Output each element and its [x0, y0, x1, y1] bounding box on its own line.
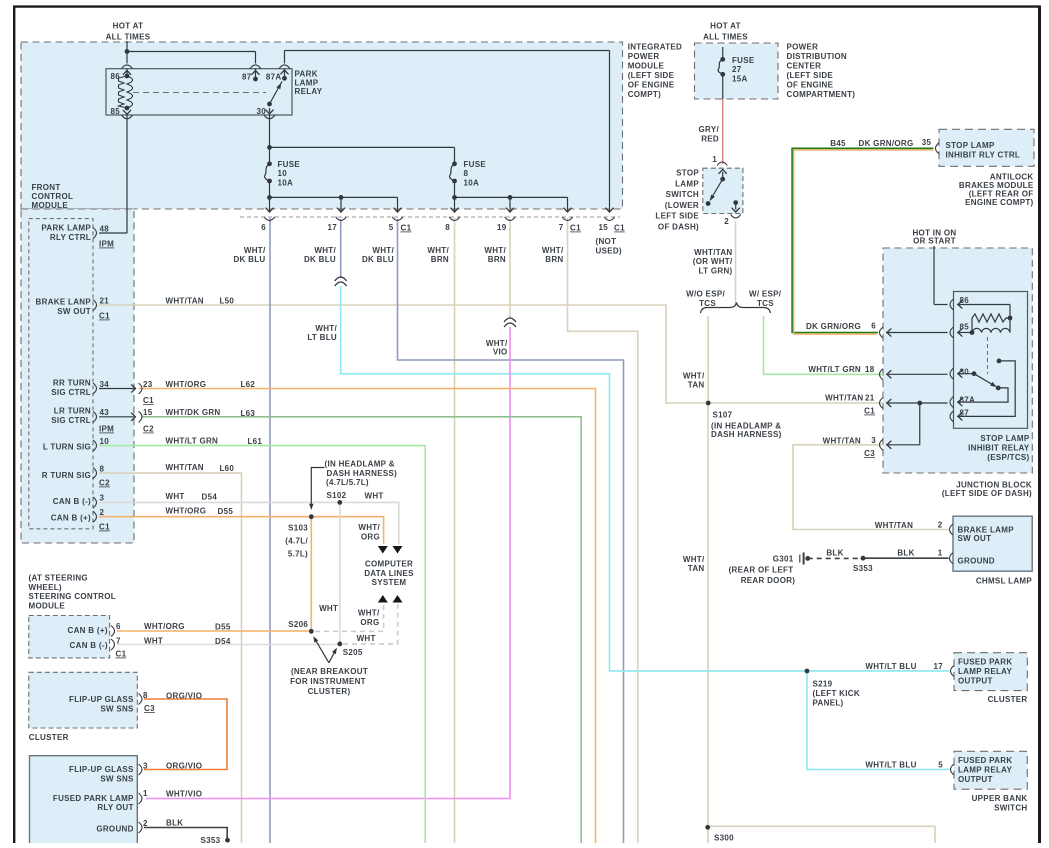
- svg-text:18: 18: [865, 365, 875, 374]
- svg-text:15: 15: [143, 408, 153, 417]
- svg-text:17: 17: [328, 223, 338, 232]
- svg-text:85: 85: [111, 107, 121, 116]
- svg-text:VIO: VIO: [493, 348, 508, 357]
- svg-text:STOP LAMP: STOP LAMP: [946, 141, 995, 150]
- svg-text:STEERING CONTROL: STEERING CONTROL: [29, 592, 116, 601]
- svg-text:WHT/: WHT/: [358, 523, 380, 532]
- svg-text:10A: 10A: [464, 179, 480, 188]
- svg-text:2: 2: [143, 819, 148, 828]
- svg-text:BLK: BLK: [826, 549, 843, 558]
- svg-text:LEFT SIDE: LEFT SIDE: [655, 212, 699, 221]
- svg-text:OUTPUT: OUTPUT: [958, 677, 993, 686]
- svg-text:WHT: WHT: [144, 637, 163, 646]
- svg-text:DASH HARNESS): DASH HARNESS): [327, 469, 398, 478]
- svg-text:S206: S206: [288, 620, 308, 629]
- svg-text:WHT/ORG: WHT/ORG: [166, 380, 207, 389]
- svg-text:C1: C1: [99, 312, 110, 321]
- svg-text:COMPUTER: COMPUTER: [365, 560, 413, 569]
- svg-text:PARK: PARK: [295, 70, 318, 79]
- svg-text:LR TURN: LR TURN: [54, 407, 91, 416]
- svg-text:FRONT: FRONT: [32, 183, 61, 192]
- svg-text:STOP: STOP: [676, 169, 699, 178]
- svg-text:C1: C1: [99, 523, 110, 532]
- svg-text:IPM: IPM: [99, 425, 114, 434]
- svg-text:86: 86: [111, 72, 121, 81]
- svg-text:2: 2: [938, 521, 943, 530]
- svg-text:WHT: WHT: [166, 492, 185, 501]
- svg-text:ENGINE COMPT): ENGINE COMPT): [965, 198, 1033, 207]
- svg-text:C1: C1: [614, 224, 625, 233]
- svg-text:5.7L): 5.7L): [288, 550, 308, 559]
- svg-text:DK BLU: DK BLU: [362, 255, 394, 264]
- svg-text:85: 85: [960, 323, 970, 332]
- svg-text:MODULE: MODULE: [628, 62, 665, 71]
- svg-text:CENTER: CENTER: [787, 62, 822, 71]
- svg-text:MODULE: MODULE: [32, 201, 69, 210]
- svg-text:C1: C1: [864, 407, 875, 416]
- svg-text:PANEL): PANEL): [813, 699, 844, 708]
- svg-text:15A: 15A: [732, 75, 748, 84]
- svg-text:FUSED PARK: FUSED PARK: [958, 756, 1012, 765]
- svg-text:C1: C1: [570, 224, 581, 233]
- svg-text:WHT: WHT: [319, 604, 338, 613]
- svg-text:(NEAR BREAKOUT: (NEAR BREAKOUT: [291, 667, 368, 676]
- svg-text:WHT/: WHT/: [358, 609, 380, 618]
- svg-text:ORG/VIO: ORG/VIO: [166, 692, 202, 701]
- svg-text:DISTRIBUTION: DISTRIBUTION: [787, 52, 848, 61]
- svg-text:BRN: BRN: [431, 255, 449, 264]
- svg-text:D55: D55: [218, 507, 234, 516]
- svg-text:L TURN SIG: L TURN SIG: [43, 443, 91, 452]
- svg-text:5: 5: [389, 223, 394, 232]
- svg-text:WHT: WHT: [357, 634, 376, 643]
- svg-text:WHT/TAN: WHT/TAN: [875, 521, 913, 530]
- svg-text:C3: C3: [144, 704, 155, 713]
- svg-text:7: 7: [116, 637, 121, 646]
- svg-text:LAMP: LAMP: [295, 78, 319, 87]
- svg-text:(IN HEADLAMP &: (IN HEADLAMP &: [325, 460, 395, 469]
- svg-text:43: 43: [100, 408, 110, 417]
- svg-text:LT GRN): LT GRN): [699, 266, 733, 275]
- svg-text:WHT/LT BLU: WHT/LT BLU: [865, 662, 916, 671]
- svg-text:D55: D55: [215, 623, 231, 632]
- svg-text:C3: C3: [864, 449, 875, 458]
- svg-text:W/ ESP/: W/ ESP/: [749, 290, 782, 299]
- svg-text:S107: S107: [713, 411, 733, 420]
- svg-text:UPPER BANK: UPPER BANK: [972, 794, 1028, 803]
- svg-text:D54: D54: [215, 637, 231, 646]
- svg-text:FUSE: FUSE: [278, 160, 301, 169]
- svg-text:WHEEL): WHEEL): [29, 583, 62, 592]
- svg-text:1: 1: [938, 549, 943, 558]
- svg-text:RELAY: RELAY: [295, 87, 323, 96]
- svg-text:S353: S353: [201, 836, 221, 843]
- svg-text:(4.7L/: (4.7L/: [285, 537, 308, 546]
- svg-text:LT BLU: LT BLU: [307, 333, 337, 342]
- svg-text:GROUND: GROUND: [958, 557, 995, 566]
- svg-text:STOP LAMP: STOP LAMP: [980, 434, 1029, 443]
- svg-text:(ESP/TCS): (ESP/TCS): [987, 453, 1029, 462]
- svg-text:3: 3: [871, 436, 876, 445]
- svg-text:CAN B (-): CAN B (-): [70, 641, 108, 650]
- svg-text:HOT AT: HOT AT: [710, 22, 741, 31]
- svg-text:FUSED PARK LAMP: FUSED PARK LAMP: [53, 794, 134, 803]
- svg-text:87: 87: [960, 409, 970, 418]
- svg-text:RED: RED: [701, 134, 719, 143]
- svg-text:L50: L50: [220, 297, 235, 306]
- svg-text:TAN: TAN: [688, 564, 705, 573]
- svg-text:17: 17: [934, 662, 944, 671]
- svg-text:BRN: BRN: [545, 255, 563, 264]
- svg-text:LAMP RELAY: LAMP RELAY: [958, 667, 1012, 676]
- svg-text:BLK: BLK: [166, 819, 183, 828]
- svg-text:WHT/VIO: WHT/VIO: [166, 790, 202, 799]
- svg-text:(LOWER: (LOWER: [665, 201, 699, 210]
- svg-text:2: 2: [100, 508, 105, 517]
- svg-text:WHT/: WHT/: [372, 246, 394, 255]
- svg-text:WHT/TAN: WHT/TAN: [694, 248, 732, 257]
- svg-text:WHT/LT GRN: WHT/LT GRN: [808, 365, 861, 374]
- svg-text:WHT/DK GRN: WHT/DK GRN: [166, 408, 221, 417]
- svg-text:WHT/: WHT/: [314, 246, 336, 255]
- svg-text:35: 35: [922, 138, 932, 147]
- svg-text:FLIP-UP GLASS: FLIP-UP GLASS: [69, 695, 134, 704]
- svg-text:WHT/LT GRN: WHT/LT GRN: [166, 437, 219, 446]
- svg-text:87: 87: [242, 73, 252, 82]
- svg-text:OR START: OR START: [913, 237, 956, 246]
- svg-text:WHT/LT BLU: WHT/LT BLU: [865, 761, 916, 770]
- svg-text:SIG CTRL: SIG CTRL: [51, 388, 91, 397]
- svg-text:C1: C1: [116, 650, 127, 659]
- svg-text:S219: S219: [813, 680, 833, 689]
- svg-text:(REAR OF LEFT: (REAR OF LEFT: [729, 566, 794, 575]
- svg-text:(LEFT SIDE: (LEFT SIDE: [787, 71, 834, 80]
- svg-text:GROUND: GROUND: [96, 825, 133, 834]
- svg-text:WHT/: WHT/: [315, 324, 337, 333]
- svg-text:RLY CTRL: RLY CTRL: [50, 233, 91, 242]
- svg-text:86: 86: [960, 296, 970, 305]
- svg-text:WHT/: WHT/: [244, 246, 266, 255]
- svg-text:CLUSTER: CLUSTER: [988, 695, 1028, 704]
- svg-text:(LEFT SIDE: (LEFT SIDE: [628, 71, 675, 80]
- svg-text:8: 8: [143, 691, 148, 700]
- svg-text:POWER: POWER: [628, 52, 660, 61]
- svg-text:GRY/: GRY/: [699, 125, 720, 134]
- svg-text:15: 15: [599, 223, 609, 232]
- svg-text:FUSE: FUSE: [464, 160, 487, 169]
- svg-text:OUTPUT: OUTPUT: [958, 775, 993, 784]
- svg-text:OF DASH): OF DASH): [658, 223, 699, 232]
- svg-text:5: 5: [938, 761, 943, 770]
- svg-text:7: 7: [559, 223, 564, 232]
- svg-text:SIG CTRL: SIG CTRL: [51, 416, 91, 425]
- svg-text:(LEFT SIDE OF DASH): (LEFT SIDE OF DASH): [942, 489, 1032, 498]
- svg-text:S103: S103: [288, 524, 308, 533]
- svg-text:6: 6: [116, 622, 121, 631]
- svg-text:CAN B (+): CAN B (+): [68, 626, 108, 635]
- svg-text:(LEFT KICK: (LEFT KICK: [813, 689, 860, 698]
- svg-text:INHIBIT RELAY: INHIBIT RELAY: [968, 444, 1030, 453]
- svg-text:B45: B45: [830, 139, 846, 148]
- svg-text:ORG/VIO: ORG/VIO: [166, 762, 202, 771]
- svg-text:G301: G301: [773, 555, 794, 564]
- svg-text:WHT/ORG: WHT/ORG: [166, 507, 207, 516]
- svg-text:ORG: ORG: [361, 532, 380, 541]
- svg-text:19: 19: [497, 223, 507, 232]
- svg-text:WHT/TAN: WHT/TAN: [166, 297, 204, 306]
- svg-text:(4.7L/5.7L): (4.7L/5.7L): [326, 478, 369, 487]
- svg-text:ALL TIMES: ALL TIMES: [106, 33, 151, 42]
- svg-text:FOR INSTRUMENT: FOR INSTRUMENT: [290, 677, 366, 686]
- svg-text:TCS: TCS: [699, 299, 716, 308]
- svg-text:R TURN SIG: R TURN SIG: [42, 471, 91, 480]
- svg-text:INHIBIT RLY CTRL: INHIBIT RLY CTRL: [946, 150, 1021, 159]
- svg-text:HOT AT: HOT AT: [113, 22, 144, 31]
- svg-text:48: 48: [100, 225, 110, 234]
- svg-text:S300: S300: [714, 834, 734, 843]
- svg-text:WHT: WHT: [365, 492, 384, 501]
- svg-text:C1: C1: [143, 396, 154, 405]
- svg-text:INTEGRATED: INTEGRATED: [628, 43, 682, 52]
- svg-text:WHT/TAN: WHT/TAN: [823, 437, 861, 446]
- svg-text:(OR WHT/: (OR WHT/: [693, 257, 733, 266]
- svg-text:RLY OUT: RLY OUT: [97, 803, 133, 812]
- svg-text:SWITCH: SWITCH: [666, 190, 699, 199]
- svg-text:FUSED PARK: FUSED PARK: [958, 658, 1012, 667]
- svg-text:L63: L63: [241, 409, 256, 418]
- svg-text:87A: 87A: [266, 73, 282, 82]
- svg-text:CLUSTER: CLUSTER: [29, 733, 69, 742]
- svg-text:CAN B (-): CAN B (-): [53, 497, 91, 506]
- svg-text:COMPARTMENT): COMPARTMENT): [787, 90, 856, 99]
- svg-text:30: 30: [960, 367, 970, 376]
- svg-text:BRN: BRN: [488, 255, 506, 264]
- svg-text:34: 34: [100, 380, 110, 389]
- svg-text:SW SNS: SW SNS: [100, 704, 134, 713]
- svg-text:DK GRN/ORG: DK GRN/ORG: [806, 322, 861, 331]
- svg-text:WHT/ORG: WHT/ORG: [144, 622, 185, 631]
- svg-text:S205: S205: [343, 648, 363, 657]
- svg-text:LAMP RELAY: LAMP RELAY: [958, 766, 1012, 775]
- svg-text:S353: S353: [853, 564, 873, 573]
- svg-text:TAN: TAN: [688, 380, 705, 389]
- svg-text:BLK: BLK: [897, 549, 914, 558]
- svg-text:3: 3: [100, 494, 105, 503]
- svg-text:SYSTEM: SYSTEM: [372, 578, 407, 587]
- svg-text:SW OUT: SW OUT: [958, 534, 992, 543]
- svg-text:USED): USED): [596, 247, 622, 256]
- svg-text:1: 1: [143, 789, 148, 798]
- svg-text:S102: S102: [327, 491, 347, 500]
- svg-text:TCS: TCS: [757, 299, 774, 308]
- svg-text:C1: C1: [401, 224, 412, 233]
- svg-text:REAR DOOR): REAR DOOR): [741, 576, 796, 585]
- svg-text:27: 27: [732, 65, 742, 74]
- svg-text:D54: D54: [202, 493, 218, 502]
- svg-text:DK GRN/ORG: DK GRN/ORG: [859, 139, 914, 148]
- svg-text:WHT/: WHT/: [484, 246, 506, 255]
- svg-text:87A: 87A: [960, 396, 976, 405]
- svg-text:L62: L62: [241, 380, 256, 389]
- svg-text:RR TURN: RR TURN: [53, 379, 91, 388]
- svg-text:2: 2: [724, 217, 729, 226]
- svg-text:WHT/: WHT/: [542, 246, 564, 255]
- svg-text:WHT/: WHT/: [683, 372, 705, 381]
- svg-text:WHT/: WHT/: [427, 246, 449, 255]
- svg-text:SW OUT: SW OUT: [57, 307, 91, 316]
- svg-text:L61: L61: [248, 437, 263, 446]
- svg-text:10: 10: [100, 437, 110, 446]
- svg-text:CHMSL LAMP: CHMSL LAMP: [976, 577, 1033, 586]
- svg-text:SWITCH: SWITCH: [994, 804, 1027, 813]
- svg-text:30: 30: [257, 107, 267, 116]
- svg-text:10: 10: [278, 169, 288, 178]
- svg-text:SW SNS: SW SNS: [100, 774, 134, 783]
- svg-text:POWER: POWER: [787, 43, 819, 52]
- svg-text:DASH HARNESS): DASH HARNESS): [711, 430, 782, 439]
- svg-text:8: 8: [445, 223, 450, 232]
- svg-text:8: 8: [100, 465, 105, 474]
- svg-text:OF ENGINE: OF ENGINE: [628, 81, 675, 90]
- svg-text:6: 6: [261, 223, 266, 232]
- svg-text:W/O ESP/: W/O ESP/: [686, 290, 725, 299]
- svg-text:OF ENGINE: OF ENGINE: [787, 81, 834, 90]
- svg-text:LAMP: LAMP: [675, 179, 699, 188]
- svg-text:FLIP-UP GLASS: FLIP-UP GLASS: [69, 765, 134, 774]
- svg-text:CONTROL: CONTROL: [32, 192, 74, 201]
- svg-text:WHT/TAN: WHT/TAN: [166, 463, 204, 472]
- svg-text:21: 21: [865, 394, 875, 403]
- svg-text:L60: L60: [220, 464, 235, 473]
- svg-text:10A: 10A: [278, 179, 294, 188]
- svg-text:MODULE: MODULE: [29, 601, 66, 610]
- svg-text:8: 8: [464, 169, 469, 178]
- svg-text:(NOT: (NOT: [596, 237, 617, 246]
- svg-text:FUSE: FUSE: [732, 56, 755, 65]
- svg-text:ORG: ORG: [360, 618, 379, 627]
- svg-text:DK BLU: DK BLU: [304, 255, 336, 264]
- svg-text:21: 21: [100, 297, 110, 306]
- svg-text:BRAKE LANP: BRAKE LANP: [36, 298, 92, 307]
- svg-text:PARK LAMP: PARK LAMP: [41, 224, 91, 233]
- svg-text:IPM: IPM: [99, 240, 114, 249]
- svg-text:WHT/: WHT/: [683, 555, 705, 564]
- svg-text:1: 1: [712, 155, 717, 164]
- svg-text:ALL TIMES: ALL TIMES: [703, 33, 748, 42]
- svg-text:DK BLU: DK BLU: [233, 255, 265, 264]
- svg-text:COMPT): COMPT): [628, 90, 661, 99]
- svg-text:(AT STEERING: (AT STEERING: [29, 574, 88, 583]
- svg-text:DATA LINES: DATA LINES: [364, 569, 414, 578]
- svg-text:C2: C2: [143, 425, 154, 434]
- svg-text:C2: C2: [99, 479, 110, 488]
- svg-text:3: 3: [143, 762, 148, 771]
- svg-text:WHT/TAN: WHT/TAN: [825, 394, 863, 403]
- svg-text:CLUSTER): CLUSTER): [308, 687, 351, 696]
- svg-text:23: 23: [143, 380, 153, 389]
- svg-text:CAN B (+): CAN B (+): [51, 514, 91, 523]
- svg-text:6: 6: [871, 322, 876, 331]
